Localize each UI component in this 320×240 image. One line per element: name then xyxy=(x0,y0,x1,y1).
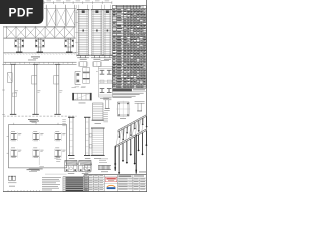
svg-text:PDF: PDF xyxy=(9,5,34,19)
